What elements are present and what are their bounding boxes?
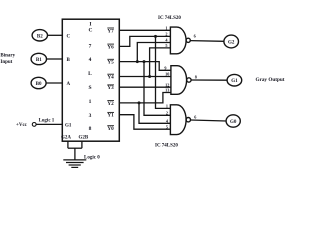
svg-text:Y6: Y6 bbox=[107, 44, 114, 50]
svg-text:C: C bbox=[67, 34, 71, 39]
svg-text:+Vcc: +Vcc bbox=[16, 123, 28, 128]
node Y5 junction b bbox=[143, 60, 146, 63]
svg-text:5: 5 bbox=[166, 124, 168, 129]
svg-text:Y2: Y2 bbox=[107, 101, 114, 107]
wire Y1 to gate U3A pin 5 bbox=[119, 115, 170, 130]
svg-text:13: 13 bbox=[165, 88, 169, 93]
wire Y6 branch to gate U3A pin 1 bbox=[156, 36, 171, 108]
svg-text:10: 10 bbox=[165, 72, 169, 77]
svg-text:Y7: Y7 bbox=[107, 28, 114, 34]
wire Y5 to gate U2B pin 9 bbox=[119, 62, 171, 71]
svg-text:8: 8 bbox=[195, 74, 197, 79]
wire G2A stub bbox=[67, 141, 69, 148]
svg-text:2: 2 bbox=[165, 32, 167, 37]
wire Y2 branch to gate U3A pin 4 bbox=[139, 103, 170, 123]
wire Logic 1 to pin G1 bbox=[36, 123, 62, 125]
svg-text:6: 6 bbox=[194, 115, 196, 120]
nand gate U3A 74LS20 bbox=[170, 105, 190, 135]
nand gate U2A 74LS20 bbox=[170, 27, 190, 54]
svg-text:Y0: Y0 bbox=[107, 126, 114, 132]
node Y6 branch junction bbox=[154, 35, 157, 38]
nand gate U2B 74LS20 bbox=[171, 66, 191, 95]
decoder IC U1 74LS138 body bbox=[62, 19, 119, 141]
svg-text:A: A bbox=[67, 82, 71, 87]
wire Y2 to gate U2B pin 13 bbox=[119, 93, 171, 103]
wire U2A output to G2 bbox=[190, 40, 224, 43]
svg-text:Input: Input bbox=[0, 60, 12, 65]
node Y5 junction a bbox=[136, 60, 139, 63]
wire enable join bbox=[68, 147, 82, 149]
svg-text:Logic 0: Logic 0 bbox=[84, 156, 100, 161]
pin number labels gate U3A bbox=[166, 104, 169, 130]
svg-text:Y5: Y5 bbox=[107, 60, 114, 66]
node B0 input terminal bbox=[31, 77, 46, 88]
svg-text:G2B: G2B bbox=[79, 136, 89, 141]
svg-text:B1: B1 bbox=[36, 58, 42, 63]
svg-text:G1: G1 bbox=[65, 123, 72, 128]
wire U2B output to G1 bbox=[191, 79, 227, 81]
svg-text:1: 1 bbox=[89, 99, 92, 105]
svg-text:2: 2 bbox=[166, 111, 168, 116]
svg-text:9: 9 bbox=[164, 66, 166, 71]
node G0 output terminal bbox=[226, 115, 240, 127]
svg-text:L: L bbox=[88, 71, 92, 77]
wire Y3 to gate U2B pin 12 bbox=[119, 86, 171, 88]
svg-text:Binary: Binary bbox=[0, 54, 15, 59]
svg-text:Gray Output: Gray Output bbox=[256, 77, 285, 83]
wire to ground bbox=[74, 148, 76, 160]
node Y4 junction bbox=[148, 75, 151, 78]
svg-text:G1: G1 bbox=[231, 79, 238, 84]
svg-text:Y4: Y4 bbox=[107, 75, 114, 81]
svg-text:B0: B0 bbox=[36, 82, 42, 87]
svg-text:12: 12 bbox=[165, 82, 169, 87]
svg-text:4: 4 bbox=[89, 57, 92, 63]
wire B1 to pin B bbox=[47, 58, 63, 60]
node G2 output terminal bbox=[224, 35, 239, 48]
svg-text:Y1: Y1 bbox=[107, 113, 114, 119]
svg-text:IC 74LS20: IC 74LS20 bbox=[158, 16, 181, 21]
wire B2 to pin C bbox=[48, 34, 63, 36]
wire Y5 branch to gate U3A pin 2 bbox=[144, 62, 170, 116]
wire G2B stub bbox=[81, 141, 83, 148]
ground bbox=[63, 160, 86, 168]
pin number labels gate U2A bbox=[165, 26, 168, 49]
svg-text:G2: G2 bbox=[228, 41, 235, 46]
svg-text:6: 6 bbox=[194, 34, 196, 39]
svg-text:Y3: Y3 bbox=[107, 85, 114, 91]
svg-text:1: 1 bbox=[165, 26, 167, 31]
svg-text:1: 1 bbox=[166, 104, 168, 109]
wire U3A output to G0 bbox=[191, 120, 227, 121]
wire Y7 to gate U2A pin 1 bbox=[119, 29, 170, 31]
svg-text:7: 7 bbox=[89, 44, 92, 50]
svg-text:5: 5 bbox=[165, 43, 167, 48]
svg-text:G2A: G2A bbox=[61, 136, 71, 141]
pin labels Y7..Y0 with overbars bbox=[107, 28, 114, 132]
wire B0 to pin A bbox=[46, 82, 62, 84]
svg-text:S: S bbox=[88, 85, 91, 91]
svg-text:Logic 1: Logic 1 bbox=[39, 118, 55, 123]
node G1 output terminal bbox=[227, 74, 242, 86]
label Binary Input bbox=[0, 54, 15, 65]
svg-text:IC 74LS20: IC 74LS20 bbox=[155, 143, 178, 148]
svg-text:8: 8 bbox=[89, 126, 92, 132]
wire Y4 branch to gate U2A pin 5 bbox=[150, 48, 171, 77]
+Vcc terminal bbox=[16, 123, 36, 129]
node Y2 junction bbox=[138, 101, 141, 104]
label IC 74LS138 vertical bbox=[88, 22, 92, 133]
svg-text:B2: B2 bbox=[37, 34, 43, 39]
svg-text:G0: G0 bbox=[230, 120, 237, 125]
wire Y4 to gate U2B pin 10 bbox=[119, 76, 171, 78]
pin number labels gate U2B bbox=[164, 66, 169, 93]
svg-text:3: 3 bbox=[89, 113, 92, 119]
wire Y5 branch to gate U2A pin 4 bbox=[137, 43, 170, 62]
node B1 input terminal bbox=[31, 53, 46, 64]
svg-text:C: C bbox=[89, 28, 93, 34]
node B2 input terminal bbox=[32, 30, 47, 41]
svg-text:B: B bbox=[67, 58, 71, 63]
wire Y6 jog to gate U2A pin 2 bbox=[119, 36, 170, 46]
